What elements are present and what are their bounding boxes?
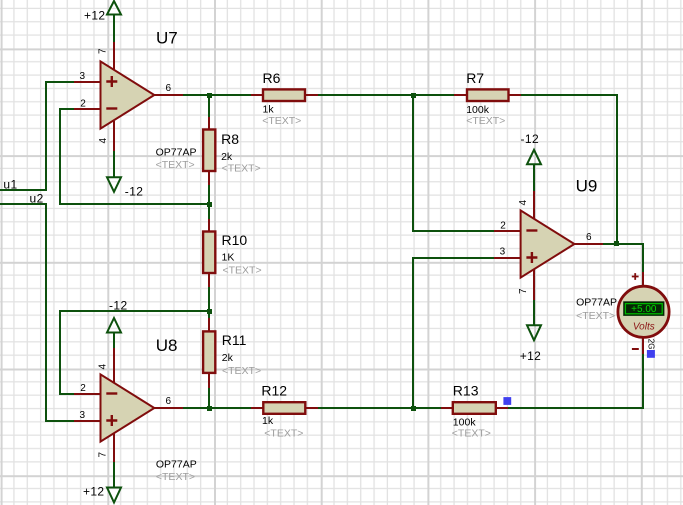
svg-text:<TEXT>: <TEXT> [262,115,301,127]
svg-text:4: 4 [518,200,529,206]
svg-text:+12: +12 [83,484,105,498]
svg-text:2G: 2G [647,339,656,350]
wire U9 pin3 down to row D [413,258,494,408]
node junction U7out/R8 [207,93,212,98]
svg-text:2k: 2k [221,151,233,163]
wire u2 input down to U8 pin3 [0,204,74,421]
svg-text:R8: R8 [221,131,239,147]
svg-text:6: 6 [166,396,172,407]
svg-text:OP77AP: OP77AP [156,458,197,470]
svg-text:<TEXT>: <TEXT> [222,163,261,175]
svg-text:U9: U9 [576,176,598,195]
svg-text:100k: 100k [453,416,477,428]
svg-text:u1: u1 [3,178,17,192]
wire R11 bottom to row D [208,388,210,408]
svg-text:OP77AP: OP77AP [576,297,617,309]
svg-text:-12: -12 [521,132,540,146]
op-amp U7 [74,28,196,171]
wire R12 to node [318,407,441,409]
svg-text:-12: -12 [109,299,128,313]
wire R8 bottom to node A [208,185,210,219]
svg-text:4: 4 [98,138,109,144]
svg-text:<TEXT>: <TEXT> [156,471,195,483]
svg-text:R6: R6 [263,70,281,86]
svg-text:Volts: Volts [633,322,655,333]
svg-text:<TEXT>: <TEXT> [222,365,261,377]
wire U8 output to R12 [183,407,251,409]
power +12 U7 top [84,1,121,42]
svg-text:7: 7 [98,48,109,54]
node junction R6/R7/U9pin2 [411,93,416,98]
svg-text:+12: +12 [84,8,106,22]
svg-text:7: 7 [518,288,529,294]
power -12 U9 top [521,132,542,191]
svg-text:<TEXT>: <TEXT> [223,265,262,277]
node junction U9 output [614,241,619,246]
node junction R10/R11/U8fb [207,309,212,314]
wire node A column R8 top lead [208,95,210,117]
wire R7 right down to U9 output node [521,95,617,244]
wire R6 to R7 [318,94,454,96]
resistor R12 [251,383,318,440]
svg-text:+12: +12 [520,349,542,363]
svg-text:4: 4 [98,364,109,370]
svg-text:2: 2 [500,220,506,231]
svg-text:1k: 1k [263,103,275,115]
selection handle near R13 [503,397,511,405]
resistor R11 [203,318,261,388]
svg-text:OP77AP: OP77AP [156,147,197,159]
wire R10 bottom to node B [208,287,210,318]
resistor R6 [251,70,318,127]
svg-text:6: 6 [586,232,592,243]
svg-text:R13: R13 [453,383,479,399]
svg-text:2k: 2k [222,352,234,364]
node junction rowD/U9pin3 [411,406,416,411]
power +12 U9 bottom [520,300,542,363]
svg-text:1k: 1k [262,415,274,427]
svg-text:3: 3 [80,71,86,82]
svg-text:U7: U7 [156,28,178,47]
svg-text:U8: U8 [156,336,178,355]
svg-text:<TEXT>: <TEXT> [264,428,303,440]
voltmeter VM1 [618,272,669,354]
svg-text:<TEXT>: <TEXT> [452,428,491,440]
power -12 U7 bottom [107,151,143,199]
svg-text:<TEXT>: <TEXT> [466,115,505,127]
svg-text:6: 6 [166,83,172,94]
svg-text:3: 3 [80,410,86,421]
svg-text:2: 2 [80,98,86,109]
svg-text:-12: -12 [125,185,144,199]
svg-text:u2: u2 [30,192,44,206]
resistor R10 [203,219,262,287]
wire U7 output to R6 [183,94,251,96]
op-amp U8 [74,336,197,483]
svg-text:7: 7 [98,452,109,458]
svg-text:2: 2 [80,383,86,394]
wire U8 pin2 feedback to node B [60,311,209,394]
power -12 U8 top [107,299,128,349]
resistor R13 [441,383,508,440]
power +12 U8 bottom [83,462,121,503]
svg-text:<TEXT>: <TEXT> [576,310,615,322]
wire U7 pin2 feedback to node A [60,109,209,204]
wire R13 to voltmeter minus [508,354,643,408]
svg-text:R7: R7 [466,70,484,86]
svg-text:3: 3 [500,247,506,258]
node junction A R8/R10/U7fb [207,202,212,207]
op-amp U9 [494,176,617,322]
svg-text:R10: R10 [222,232,248,248]
resistor R7 [454,70,521,127]
svg-text:+5.00: +5.00 [631,304,657,315]
wire u1 input to U7 pin3 [0,82,74,190]
svg-text:1K: 1K [222,252,235,264]
svg-text:R12: R12 [261,383,287,399]
wire node R6/R7 down to U9 pin2 [413,95,494,231]
svg-text:R11: R11 [222,332,247,348]
selection handle near voltmeter [647,350,655,358]
node junction U8out/R11/R12 [207,406,212,411]
wire U9 output node to voltmeter plus [603,244,643,272]
svg-text:<TEXT>: <TEXT> [156,159,195,171]
resistor R8 [203,117,261,185]
